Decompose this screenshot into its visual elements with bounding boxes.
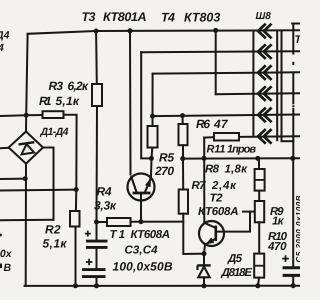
svg-text:Т3: Т3 [82, 10, 96, 24]
svg-text:100,0х50В: 100,0х50В [113, 260, 173, 274]
svg-text:Т2: Т2 [210, 193, 224, 205]
svg-text:,0х: ,0х [0, 248, 13, 260]
svg-text:R6: R6 [196, 117, 210, 131]
svg-text:1пров: 1пров [227, 144, 256, 156]
svg-text:6,2к: 6,2к [68, 79, 89, 93]
svg-text:R8: R8 [205, 164, 220, 176]
svg-text:R2: R2 [45, 223, 61, 237]
svg-text:Ш8: Ш8 [256, 11, 272, 22]
svg-text:С3,С4: С3,С4 [125, 245, 159, 257]
svg-text:Д1-Д4: Д1-Д4 [40, 126, 69, 138]
svg-text:470: 470 [267, 241, 287, 253]
svg-text:R7: R7 [192, 180, 207, 192]
svg-text:1к: 1к [272, 216, 285, 228]
svg-text:R3: R3 [49, 79, 64, 93]
svg-text:Т: Т [295, 34, 301, 46]
svg-text:5,1к: 5,1к [43, 237, 68, 251]
svg-text:4: 4 [0, 42, 4, 54]
svg-text:КТ608А: КТ608А [198, 206, 239, 218]
svg-text:КТ801А: КТ801А [103, 10, 147, 24]
svg-text:R11: R11 [207, 144, 226, 156]
svg-text:КТ608А: КТ608А [131, 229, 171, 241]
svg-text:47: 47 [213, 117, 229, 131]
svg-text:В: В [4, 262, 12, 274]
svg-text:5,1к: 5,1к [56, 94, 80, 108]
svg-text:Д4: Д4 [0, 30, 10, 42]
svg-text:3,3к: 3,3к [94, 199, 117, 213]
svg-text:R1: R1 [39, 94, 52, 108]
svg-text:270: 270 [154, 164, 174, 178]
svg-text:С5 2000,0х100В: С5 2000,0х100В [295, 195, 301, 262]
svg-text:1,8к: 1,8к [225, 164, 249, 176]
svg-text:2,4к: 2,4к [211, 180, 237, 192]
svg-text:КТ803: КТ803 [184, 11, 220, 25]
svg-text:Д818Е: Д818Е [221, 267, 253, 279]
svg-text:R4: R4 [97, 185, 112, 199]
svg-text:Т4: Т4 [161, 11, 175, 25]
svg-text:Д5: Д5 [227, 253, 243, 265]
svg-text:R5: R5 [159, 151, 174, 165]
